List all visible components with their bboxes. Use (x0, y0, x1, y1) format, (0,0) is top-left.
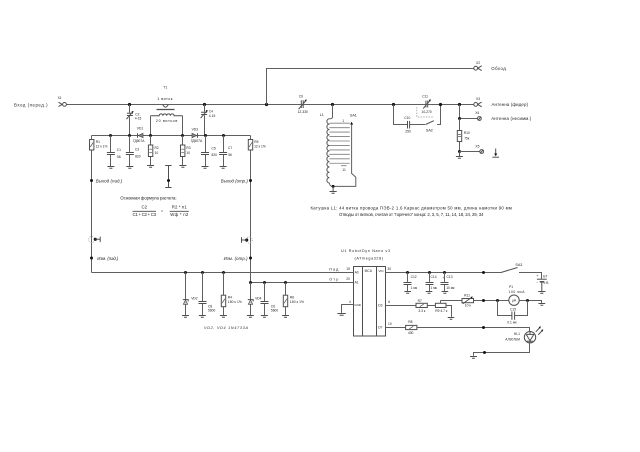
wire LED cathode to ground rail (474, 343, 530, 356)
svg-text:VD2: VD2 (191, 297, 198, 301)
wire R5 column (250, 136, 252, 283)
svg-text:АЛ307БМ: АЛ307БМ (505, 338, 520, 342)
svg-text:10: 10 (186, 151, 190, 155)
svg-text:20: 20 (346, 277, 350, 281)
ground C1 (107, 167, 114, 169)
wire VIN rail (386, 272, 502, 274)
node junction coil bottom (332, 185, 335, 188)
node junction X4 (458, 117, 461, 120)
svg-text:C12: C12 (411, 275, 417, 279)
capacitor C9 variable (298, 95, 308, 114)
node junction C12 (406, 271, 409, 274)
svg-text:VD3: VD3 (192, 127, 199, 131)
svg-text:C9: C9 (299, 95, 303, 99)
node Изм отр label (224, 256, 252, 261)
wire R11 to P1 (474, 300, 509, 302)
resistor R10 (457, 131, 470, 142)
svg-text:C14: C14 (431, 275, 437, 279)
svg-text:10 к: 10 к (465, 304, 472, 308)
svg-text:Выход (пад.): Выход (пад.) (96, 178, 123, 183)
svg-text:11: 11 (342, 168, 346, 172)
svg-text:VIN: VIN (378, 269, 383, 273)
wire main line left (66, 104, 301, 106)
svg-text:MCU: MCU (365, 269, 373, 273)
battery BT (536, 274, 549, 285)
earth arrow symbol (492, 149, 499, 158)
ground L1 (330, 186, 337, 193)
node bypass junction (265, 103, 268, 106)
node junction L1 top (331, 103, 334, 106)
svg-text:1: 1 (342, 119, 344, 123)
ground R3 (179, 166, 186, 168)
svg-text:+: + (443, 276, 445, 280)
svg-text:180 к 1%: 180 к 1% (228, 300, 242, 304)
SECTION: power and meter (386, 263, 550, 358)
wire SA3 to battery (519, 273, 542, 279)
node Выход отр (221, 178, 252, 183)
svg-text:20 витков: 20 витков (156, 119, 177, 123)
ground VD4 (247, 316, 254, 318)
node junction R6 (284, 281, 287, 284)
svg-text:10: 10 (155, 151, 159, 155)
node junction C13 (443, 271, 446, 274)
ground VD2 (182, 316, 189, 318)
svg-text:75к: 75к (464, 136, 470, 140)
capacitor C3 (126, 136, 141, 167)
node junction secondary right (181, 134, 184, 137)
connector X4 (475, 111, 481, 120)
trimmer R11 (462, 293, 474, 307)
transformer T1 secondary 20 turns (151, 114, 183, 123)
svg-text:VD2, VD4 1N4733A: VD2, VD4 1N4733A (204, 326, 249, 330)
connector X1 (58, 96, 67, 106)
transformer T1 core (157, 109, 175, 111)
switch SA1 selector (333, 122, 356, 187)
svg-text:C1 + C2 + C3: C1 + C2 + C3 (133, 212, 157, 217)
dashed link C11 to SA2 (417, 107, 433, 117)
ground C12 (404, 292, 411, 294)
svg-text:ГД507А: ГД507А (191, 139, 203, 143)
svg-text:4: 4 (349, 300, 351, 304)
svg-text:Обход: Обход (491, 66, 506, 71)
SECTION: mcu (329, 249, 392, 336)
svg-text:HL1: HL1 (514, 332, 520, 336)
node junction VD2 (184, 271, 187, 274)
transformer T1 primary 1 turn (157, 97, 173, 107)
node junction C7 (222, 134, 225, 137)
diode VD1 (133, 126, 145, 143)
svg-text:R11: R11 (464, 293, 470, 297)
wire R2 column (150, 136, 152, 166)
svg-text:30: 30 (387, 267, 391, 271)
svg-text:430: 430 (408, 331, 414, 335)
resistor R6 (283, 295, 304, 307)
node junction Отр corner (249, 281, 252, 284)
resistor R5 (248, 140, 266, 151)
svg-text:Выход (отр.): Выход (отр.) (221, 178, 249, 183)
wire R1 column (91, 136, 93, 273)
zener VD4 (248, 283, 262, 316)
wire R7 to R9 (427, 305, 435, 307)
svg-text:12 к 1%: 12 к 1% (96, 145, 108, 149)
wire D7 pin (386, 327, 406, 329)
svg-text:SA3: SA3 (515, 263, 522, 267)
svg-text:ГД507А: ГД507А (133, 139, 145, 143)
ground mid column (165, 166, 171, 188)
resistor R7 (416, 299, 427, 313)
node junction C10 branch left (392, 103, 395, 106)
wire secondary left lead (150, 116, 152, 136)
wire coil bottom (329, 183, 333, 186)
connector X3 (474, 97, 482, 107)
ground R6 (282, 316, 289, 318)
svg-text:C15: C15 (510, 307, 516, 311)
svg-text:0.1 мк: 0.1 мк (507, 320, 517, 324)
capacitor C11 trimmer (422, 95, 432, 114)
wire main line right of C11 (428, 104, 474, 106)
node junction X5 (458, 150, 461, 153)
svg-text:3.3 к: 3.3 к (418, 309, 425, 313)
svg-text:C11: C11 (422, 95, 428, 99)
resistor R8 (406, 320, 417, 335)
svg-text:P1: P1 (509, 285, 513, 289)
ground under X5 node (456, 152, 463, 159)
svg-text:БТ: БТ (543, 274, 547, 278)
node Выход пад (90, 178, 123, 183)
wire X5 (460, 151, 480, 153)
wire GND pin (342, 305, 354, 313)
wire R9 right to ground (446, 306, 452, 317)
ground MCU (337, 314, 345, 316)
svg-text:1 мк: 1 мк (431, 286, 438, 290)
svg-text:1 виток: 1 виток (157, 97, 173, 101)
node junction C6 (263, 281, 266, 284)
wire R4 column (223, 273, 225, 316)
resistor R1 (90, 140, 108, 151)
node junction on meter line a (482, 299, 485, 302)
inductor L1 winding (327, 119, 330, 183)
ground battery (538, 283, 545, 294)
svg-text:180 к 1%: 180 к 1% (290, 300, 304, 304)
connector X5 (475, 145, 483, 154)
capacitor C10 (404, 116, 411, 134)
svg-text:A0: A0 (355, 271, 359, 275)
svg-text:10: 10 (388, 322, 392, 326)
svg-text:VD1: VD1 (137, 126, 144, 130)
wire R3 column (182, 136, 184, 166)
svg-text:5600: 5600 (208, 309, 216, 313)
capacitor C13 electrolytic (441, 273, 456, 292)
svg-text:VD4: VD4 (255, 297, 262, 301)
svg-text:4-15: 4-15 (209, 114, 216, 118)
svg-text:T1: T1 (163, 86, 167, 90)
capacitor C8 (199, 273, 216, 316)
svg-text:10 мк: 10 мк (446, 286, 455, 290)
svg-text:D7: D7 (378, 326, 382, 330)
svg-text:R1: R1 (96, 140, 100, 144)
wire R10 column (459, 119, 461, 152)
svg-text:Изм. (отр.): Изм. (отр.) (224, 256, 249, 261)
meter P1 (509, 285, 526, 305)
resistor R2 (148, 145, 158, 157)
ground C14 (426, 292, 433, 294)
svg-text:R3: R3 (186, 146, 190, 150)
ground C6 (261, 316, 268, 318)
SECTION: detector (89, 126, 354, 329)
SECTION: notes (120, 196, 512, 218)
node junction C2 top (128, 103, 131, 106)
wire D3 pin (386, 305, 417, 307)
wire C2 column (129, 105, 131, 136)
svg-text:1 мк: 1 мк (411, 286, 418, 290)
wire Отр bus (251, 282, 354, 284)
svg-text:820: 820 (212, 153, 218, 157)
node junction C3 (128, 134, 131, 137)
wire bypass riser (267, 69, 474, 105)
wire main line right of C9 (304, 104, 426, 106)
wire L1 drop (330, 105, 333, 119)
svg-text:Изм. (пад.): Изм. (пад.) (97, 256, 119, 261)
svg-text:C2: C2 (142, 204, 148, 209)
wire detector bus (92, 135, 251, 137)
svg-text:100 мкА: 100 мкА (509, 290, 526, 294)
capacitor C5 (201, 136, 217, 167)
LED HL1 (505, 332, 536, 343)
node junction secondary left (149, 134, 152, 137)
svg-text:Отр: Отр (329, 278, 338, 282)
svg-text:R5: R5 (254, 140, 258, 144)
ground C5 (202, 167, 209, 169)
svg-text:L1: L1 (320, 113, 324, 117)
ground C7 (220, 167, 227, 169)
svg-text:SA1: SA1 (350, 113, 357, 117)
potentiometer R9 (435, 301, 448, 313)
capacitor C4 trimmer (201, 110, 216, 119)
node junction C8 (201, 271, 204, 274)
svg-text:Wф * n2: Wф * n2 (170, 212, 189, 217)
svg-text:X2: X2 (476, 61, 480, 65)
connector X2 (474, 61, 482, 70)
inductor L1 taps (329, 123, 349, 166)
wire R9 wiper to R11 (441, 300, 463, 302)
node junction C5 (204, 134, 207, 137)
svg-text:R9 4.7 к: R9 4.7 к (435, 309, 448, 313)
svg-text:(ATmega328): (ATmega328) (355, 257, 384, 261)
svg-text:C3: C3 (135, 148, 139, 152)
ground C3 (126, 167, 133, 169)
svg-text:GND: GND (354, 303, 362, 307)
node junction P1 right (526, 299, 529, 302)
svg-text:−: − (536, 280, 538, 284)
node junction on meter line b (496, 299, 499, 302)
svg-text:56: 56 (117, 155, 121, 159)
node junction bottom rail (483, 351, 486, 354)
svg-text:Катушка L1: 44 витка провода: Катушка L1: 44 витка провода ПЭВ-2 1.6 К… (311, 205, 512, 210)
capacitor C1 (107, 136, 121, 167)
node junction R4 (222, 271, 225, 274)
svg-text:Антенна (несимм.): Антенна (несимм.) (491, 116, 532, 121)
resistor R3 (181, 145, 191, 157)
svg-text:R2: R2 (155, 146, 159, 150)
note formula bar left (133, 210, 157, 212)
node junction D7 line (482, 326, 485, 329)
svg-text:10-270: 10-270 (422, 110, 432, 114)
svg-text:6: 6 (388, 300, 390, 304)
svg-text:9 В: 9 В (544, 281, 550, 285)
capacitor C7 (219, 136, 232, 167)
wire R8 to LED (417, 328, 530, 332)
node junction C4 top (203, 103, 206, 106)
capacitor C12 (404, 273, 418, 292)
wire X4 branch (460, 105, 478, 119)
svg-text:Вход (перед.): Вход (перед.) (14, 102, 48, 107)
zener VD2 (183, 273, 198, 316)
node Изм пад label (90, 256, 119, 261)
ground bottom rail (470, 357, 477, 359)
IC U1 body (354, 267, 386, 337)
svg-text:R2 * n1: R2 * n1 (172, 204, 188, 209)
svg-text:56: 56 (228, 153, 232, 157)
node junction VIN rail right (482, 271, 485, 274)
wire P1 right to ground (519, 301, 541, 304)
node junction C14 (428, 271, 431, 274)
svg-text:+: + (536, 274, 538, 278)
switch SA2 (426, 121, 434, 133)
svg-text:C1: C1 (117, 148, 121, 152)
diode VD3 (191, 127, 203, 143)
svg-text:R8: R8 (408, 320, 412, 324)
svg-text:C13: C13 (447, 275, 453, 279)
ground P1 (538, 304, 545, 306)
svg-text:SA2: SA2 (426, 129, 433, 133)
svg-text:12-330: 12-330 (298, 110, 308, 114)
svg-text:X4: X4 (475, 111, 479, 115)
svg-text:X3: X3 (476, 97, 480, 101)
switch SA3 (501, 263, 522, 272)
svg-text:C7: C7 (228, 146, 232, 150)
SECTION: top matching network (14, 61, 532, 193)
svg-text:4-15: 4-15 (135, 117, 142, 121)
note formula bar right (170, 210, 189, 212)
LED arrows (536, 326, 544, 334)
resistor R4 (221, 295, 242, 307)
ground R2 (147, 166, 154, 168)
capacitor C6 (261, 283, 279, 316)
wire Пад bus (92, 272, 354, 274)
svg-text:Отводы от витков, считая от "г: Отводы от витков, считая от "горячего" к… (339, 212, 484, 217)
wire C10 branch (394, 105, 441, 125)
ground C8 (199, 316, 206, 318)
wire R6 column (285, 283, 287, 316)
svg-text:Пад: Пад (329, 268, 339, 272)
svg-text:R7: R7 (418, 299, 422, 303)
capacitor C2 trimmer (126, 111, 141, 121)
capacitor C15 loop (498, 301, 528, 325)
ground R4 (220, 316, 227, 318)
svg-text:820: 820 (135, 155, 141, 159)
svg-text:R10: R10 (464, 131, 470, 135)
svg-text:Антенна (фидер): Антенна (фидер) (492, 102, 529, 107)
jack Изм отр (242, 237, 253, 243)
svg-text:12 к 1%: 12 к 1% (254, 145, 266, 149)
svg-text:X1: X1 (58, 96, 62, 100)
svg-text:D3: D3 (378, 304, 382, 308)
capacitor C14 (426, 273, 438, 292)
svg-text:U1 RobotDyn Nano v3: U1 RobotDyn Nano v3 (341, 249, 390, 253)
svg-text:19: 19 (346, 267, 350, 271)
svg-text:250: 250 (405, 130, 411, 134)
svg-text:Основная формула расчета:: Основная формула расчета: (120, 196, 176, 201)
svg-text:X5: X5 (475, 145, 479, 149)
wire secondary right lead (182, 116, 184, 136)
ground C13 (442, 292, 449, 294)
svg-text:C5: C5 (212, 146, 216, 150)
jack Изм пад (89, 236, 101, 242)
wire C4 column (204, 105, 206, 136)
node junction X3 (458, 103, 461, 106)
svg-text:C10: C10 (404, 116, 410, 120)
ground R9 (448, 318, 455, 320)
node junction C11 right (439, 103, 442, 106)
node junction C1 (109, 134, 112, 137)
svg-text:5600: 5600 (271, 309, 279, 313)
svg-text:A1: A1 (355, 281, 359, 285)
